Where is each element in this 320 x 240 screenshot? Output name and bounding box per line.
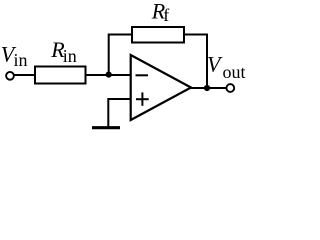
resistor Rin	[35, 67, 86, 84]
resistor Rf	[132, 27, 184, 43]
svg-text:in: in	[14, 50, 28, 70]
wire input terminal to Rin	[14, 74, 35, 76]
wire junction up to feedback branch	[109, 35, 131, 76]
wire non-inverting input from ground	[108, 99, 130, 127]
wire Rf to output node	[185, 35, 207, 89]
wire op-amp output to Vout terminal	[191, 87, 226, 89]
node Vin input terminal	[6, 72, 14, 80]
node inverting-input junction	[106, 72, 112, 78]
node output junction	[204, 85, 210, 91]
op-amp U1	[131, 55, 191, 120]
op-amp plus pin symbol	[136, 98, 149, 100]
svg-text:f: f	[163, 5, 169, 25]
node Vout output terminal	[226, 84, 234, 92]
op-amp minus pin symbol	[136, 74, 149, 76]
svg-text:in: in	[63, 46, 77, 66]
wire Rin to inverting-input junction	[87, 74, 109, 76]
ground	[92, 126, 120, 129]
svg-text:out: out	[223, 62, 246, 82]
wire inverting input to op-amp	[109, 74, 130, 76]
